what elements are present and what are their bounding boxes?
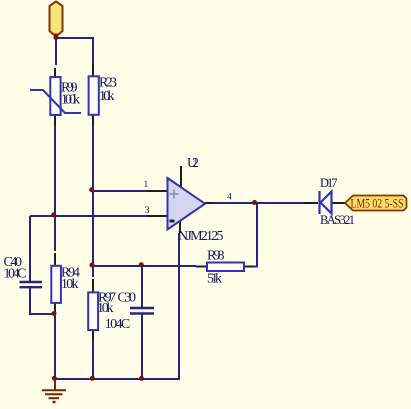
svg-text:R98: R98 bbox=[207, 249, 225, 264]
svg-text:C30: C30 bbox=[118, 291, 137, 306]
svg-text:4: 4 bbox=[227, 193, 232, 203]
svg-text:NJM2125: NJM2125 bbox=[178, 229, 224, 244]
svg-text:10k: 10k bbox=[97, 301, 114, 316]
svg-text:51k: 51k bbox=[207, 272, 222, 287]
svg-text:U2: U2 bbox=[187, 156, 199, 171]
svg-text:1: 1 bbox=[144, 180, 149, 190]
svg-text:10k: 10k bbox=[99, 89, 115, 104]
svg-text:BAS321: BAS321 bbox=[320, 213, 355, 227]
svg-text:100k: 100k bbox=[61, 93, 80, 108]
svg-text:104C: 104C bbox=[4, 267, 27, 282]
svg-text:LM5 02 5-SS: LM5 02 5-SS bbox=[351, 197, 404, 211]
svg-text:104C: 104C bbox=[105, 317, 131, 332]
svg-text:3: 3 bbox=[145, 206, 150, 216]
svg-text:D17: D17 bbox=[320, 176, 338, 190]
svg-text:10k: 10k bbox=[61, 277, 79, 292]
